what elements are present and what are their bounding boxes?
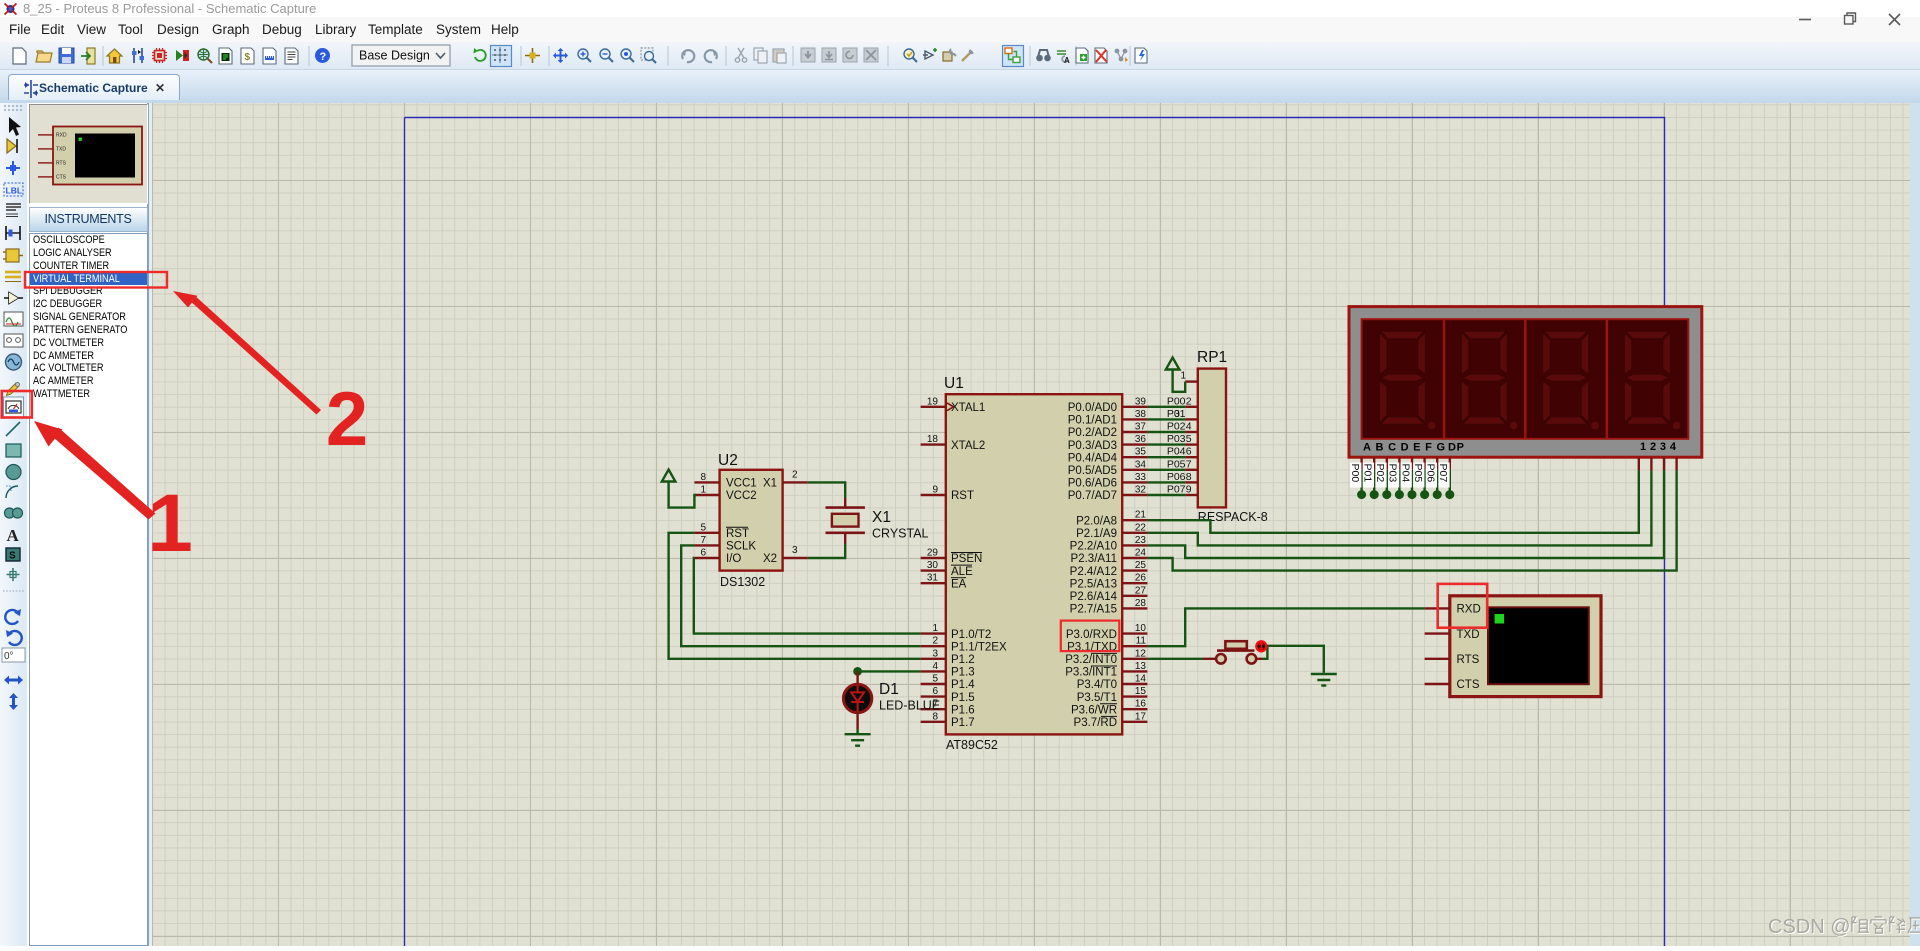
digit 1 segments	[1379, 331, 1436, 430]
ground below LED	[845, 734, 871, 746]
angle box	[2, 648, 25, 662]
svg-text:9: 9	[1186, 484, 1192, 496]
crystal top pin	[844, 498, 846, 508]
svg-text:37: 37	[1135, 422, 1147, 433]
refresh	[474, 48, 486, 61]
import door	[81, 48, 95, 64]
svg-text:P0.1/AD1: P0.1/AD1	[1068, 415, 1117, 427]
svg-text:P04: P04	[1167, 446, 1186, 458]
svg-text:P2.6/A14: P2.6/A14	[1070, 591, 1118, 603]
open folder	[36, 51, 52, 62]
svg-text:RXD: RXD	[1457, 604, 1481, 616]
2D box tool	[6, 444, 21, 457]
svg-text:6: 6	[932, 686, 938, 697]
2D circle tool	[6, 465, 21, 480]
overlines INT0 INT1 WR RD	[1091, 653, 1117, 716]
svg-text:P1.6: P1.6	[951, 704, 975, 716]
svg-text:24: 24	[1135, 548, 1147, 559]
wire U1.22 to display pin2	[1147, 470, 1651, 545]
svg-text:6: 6	[1186, 446, 1192, 458]
svg-text:P06: P06	[1425, 464, 1437, 483]
svg-text:P1.3: P1.3	[951, 667, 975, 679]
chip U1 AT89C52 body	[946, 394, 1122, 734]
LED D1 anode wire	[856, 671, 858, 684]
svg-text:3: 3	[932, 648, 938, 659]
svg-text:P3.3/INT1: P3.3/INT1	[1065, 667, 1117, 679]
svg-text:16: 16	[1135, 699, 1147, 710]
svg-text:P05: P05	[1167, 458, 1186, 470]
svg-text:39: 39	[1135, 396, 1147, 407]
svg-text:2: 2	[326, 377, 368, 462]
svg-text:8: 8	[932, 711, 938, 722]
wire button to ground	[1263, 646, 1324, 673]
terminal mode tool	[4, 293, 23, 304]
pan	[553, 48, 568, 63]
svg-text:11: 11	[1136, 636, 1147, 647]
svg-text:2: 2	[792, 469, 798, 480]
svg-text:26: 26	[1135, 573, 1147, 584]
help	[315, 48, 330, 63]
2D symbol tool	[6, 548, 20, 561]
block move	[822, 48, 836, 62]
svg-text:X1: X1	[872, 509, 891, 526]
RP1 pin numbers 2-9	[1174, 395, 1192, 495]
svg-text:P2.7/A15: P2.7/A15	[1070, 604, 1117, 616]
svg-text:P2.3/A11: P2.3/A11	[1071, 553, 1117, 565]
property tool	[1057, 51, 1070, 65]
zoom all	[641, 48, 656, 63]
svg-text:33: 33	[1135, 472, 1147, 483]
rotate ccw tool	[8, 631, 22, 645]
svg-text:P0.0/AD0: P0.0/AD0	[1068, 402, 1117, 414]
svg-text:10: 10	[1135, 623, 1147, 634]
block copy	[801, 48, 815, 62]
save	[59, 48, 74, 63]
new document	[13, 48, 26, 64]
make device	[923, 48, 937, 59]
wire U1.24 to display pin4	[1147, 470, 1676, 570]
svg-text:4: 4	[1186, 421, 1192, 433]
display select pin stubs	[1639, 457, 1677, 470]
svg-text:ALE: ALE	[951, 566, 973, 578]
divider	[3, 590, 24, 592]
annotation arrow 1	[34, 421, 156, 520]
button right pin	[1256, 658, 1262, 660]
graph mode tool	[4, 312, 23, 326]
2D arc tool	[6, 486, 18, 498]
svg-text:P0.6/AD6: P0.6/AD6	[1068, 478, 1117, 490]
terminal screen	[1488, 607, 1589, 684]
bus wire tool	[5, 272, 21, 277]
U2 pin numbers	[700, 472, 706, 559]
svg-text:1: 1	[1180, 371, 1186, 382]
svg-text:P05: P05	[1412, 464, 1424, 483]
annotation arrow 2	[173, 291, 321, 415]
paste	[773, 48, 786, 63]
wire power to RP1 pin1	[1173, 370, 1186, 392]
rotated net labels P00-P07	[1349, 463, 1450, 488]
window close button	[1889, 14, 1900, 25]
svg-text:I/O: I/O	[726, 553, 741, 565]
sheet border	[405, 118, 1665, 947]
wire U1.P3.2 to button	[1147, 658, 1203, 660]
svg-text:P1.5: P1.5	[951, 692, 975, 704]
svg-text:P2.5/A13: P2.5/A13	[1070, 578, 1117, 590]
grid toggle (selected)	[491, 46, 512, 67]
electrical check	[1135, 48, 1147, 63]
segment wires with terminal dots	[1362, 470, 1450, 493]
bus tool	[6, 226, 20, 240]
svg-text:3: 3	[1174, 408, 1180, 420]
svg-text:18: 18	[927, 434, 939, 445]
svg-text:P2.1/A9: P2.1/A9	[1076, 528, 1117, 540]
red box around terminal RXD	[1438, 584, 1488, 628]
U2 pin names	[726, 478, 777, 566]
overlines PSEN ALE EA	[951, 553, 982, 578]
text script tool	[6, 204, 21, 210]
wire U2.I/O to U1.P1.0	[694, 558, 921, 634]
undo	[681, 50, 694, 62]
zoom out	[600, 49, 613, 62]
preview screen	[75, 133, 135, 177]
terminal pin stubs	[1425, 608, 1450, 684]
svg-text:15: 15	[1135, 686, 1147, 697]
wire U1.TXD to terminal RXD	[1147, 608, 1424, 646]
svg-text:4: 4	[932, 661, 938, 672]
svg-text:P02: P02	[1374, 464, 1386, 483]
wire U2.SCLK to U1.P1.1	[681, 545, 920, 646]
svg-text:P3.5/T1: P3.5/T1	[1077, 692, 1117, 704]
crystal X1	[826, 506, 865, 509]
preview pin leads	[38, 134, 53, 176]
svg-text:XTAL1: XTAL1	[951, 402, 985, 414]
svg-text:6: 6	[700, 548, 706, 559]
rotate cw tool	[5, 610, 19, 624]
app icon	[5, 4, 17, 15]
svg-text:DS1302: DS1302	[720, 575, 765, 589]
terminal cursor	[1495, 614, 1505, 624]
svg-text:3: 3	[792, 545, 798, 556]
svg-text:22: 22	[1135, 522, 1147, 533]
origin marker	[525, 48, 540, 63]
svg-text:34: 34	[1135, 459, 1147, 470]
svg-text:SCLK: SCLK	[726, 541, 756, 553]
zoom region	[621, 49, 634, 62]
svg-text:19: 19	[927, 396, 939, 407]
copy	[754, 48, 767, 63]
power arrow RP1	[1166, 358, 1180, 370]
button left pin	[1203, 658, 1216, 660]
svg-text:P07: P07	[1167, 484, 1186, 496]
svg-text:RST: RST	[951, 490, 974, 502]
remove sheet	[1095, 48, 1107, 63]
LED cathode wire	[856, 713, 858, 729]
globe search	[198, 49, 212, 63]
virtual terminal body	[1450, 596, 1601, 697]
tape recorder tool	[4, 334, 23, 347]
svg-text:P1.2: P1.2	[951, 654, 975, 666]
svg-text:P0.2/AD2: P0.2/AD2	[1068, 427, 1117, 439]
svg-text:P3.6/WR: P3.6/WR	[1071, 704, 1117, 716]
wire crystal bottom to U2.X2	[808, 544, 845, 559]
svg-text:RST: RST	[726, 528, 749, 540]
svg-text:P04: P04	[1399, 464, 1411, 483]
net labels P00..P07	[1167, 395, 1186, 495]
svg-text:P0.3/AD3: P0.3/AD3	[1068, 440, 1117, 452]
doc ruler	[263, 48, 276, 64]
cut	[735, 48, 746, 62]
svg-text:P00: P00	[1167, 395, 1186, 407]
svg-text:U1: U1	[944, 375, 964, 392]
LED D1 body	[843, 684, 871, 712]
doc text	[285, 48, 298, 64]
junction dot tool	[6, 161, 20, 175]
button cap	[1217, 649, 1254, 652]
home	[107, 49, 122, 63]
svg-text:38: 38	[1135, 409, 1147, 420]
packaging tool	[943, 49, 956, 61]
svg-text:P03: P03	[1167, 433, 1186, 445]
svg-text:P0.5/AD5: P0.5/AD5	[1068, 465, 1117, 477]
svg-text:P02: P02	[1167, 421, 1186, 433]
junction node LED	[853, 667, 862, 676]
svg-text:CTS: CTS	[1457, 679, 1480, 691]
svg-text:P0.4/AD4: P0.4/AD4	[1068, 452, 1118, 464]
wire U2.RST to U1.P1.2	[669, 533, 921, 659]
search binoculars	[1036, 50, 1051, 61]
svg-text:13: 13	[1135, 661, 1147, 672]
instruments tool (selected)	[4, 397, 24, 417]
crystal bottom pin	[844, 533, 846, 544]
svg-text:14: 14	[1135, 674, 1147, 685]
svg-text:30: 30	[927, 560, 939, 571]
svg-text:29: 29	[927, 548, 939, 559]
svg-text:P1.7: P1.7	[951, 717, 975, 729]
netlist icon (selected)	[1003, 46, 1024, 67]
svg-text:2: 2	[1186, 395, 1192, 407]
2D marker tool	[7, 568, 20, 581]
digit separators	[1444, 319, 1607, 439]
component pins icon	[132, 48, 144, 63]
U1 left pin stubs	[921, 407, 946, 722]
red chip	[152, 48, 167, 63]
svg-text:P2.4/A12: P2.4/A12	[1070, 566, 1117, 578]
svg-text:P03: P03	[1387, 464, 1399, 483]
voltage probe tool	[7, 383, 20, 396]
svg-text:XTAL2: XTAL2	[951, 440, 985, 452]
svg-text:P1.1/T2EX: P1.1/T2EX	[951, 641, 1007, 653]
wires U1 P0.x to RP1	[1147, 407, 1185, 495]
svg-text:P0.7/AD7: P0.7/AD7	[1068, 490, 1117, 502]
svg-text:9: 9	[932, 485, 938, 496]
svg-text:P2.2/A10: P2.2/A10	[1070, 541, 1117, 553]
svg-text:VCC1: VCC1	[726, 478, 757, 490]
svg-text:LED-BLUE: LED-BLUE	[879, 699, 940, 713]
redo	[705, 50, 718, 62]
preview pin names	[56, 132, 67, 180]
svg-text:RTS: RTS	[1457, 654, 1480, 666]
window maximize button	[1845, 13, 1856, 24]
svg-text:RESPACK-8: RESPACK-8	[1198, 510, 1268, 524]
block delete	[864, 48, 878, 62]
U1 left pin numbers	[927, 396, 939, 722]
svg-text:31: 31	[927, 573, 939, 584]
goto sheet	[1115, 49, 1128, 62]
svg-text:P1.4: P1.4	[951, 679, 975, 691]
window minimize button	[1799, 19, 1811, 21]
wire U2.X1 to crystal top	[808, 482, 845, 498]
svg-text:VCC2: VCC2	[726, 490, 757, 502]
U1 right pin numbers	[1135, 396, 1147, 722]
svg-text:28: 28	[1135, 598, 1147, 609]
play preview	[176, 50, 189, 61]
svg-text:21: 21	[1135, 510, 1147, 521]
svg-text:36: 36	[1135, 434, 1147, 445]
svg-text:7: 7	[700, 535, 706, 546]
svg-text:P3.2/INT0: P3.2/INT0	[1065, 654, 1117, 666]
svg-text:32: 32	[1135, 485, 1147, 496]
chip U2 DS1302 body	[720, 470, 783, 571]
svg-text:X2: X2	[763, 553, 777, 565]
svg-text:12: 12	[1135, 648, 1147, 659]
overline RST U2	[726, 526, 748, 528]
digit 3 segments	[1543, 331, 1600, 430]
U1 left pin names	[951, 402, 1007, 729]
selection arrow tool	[9, 117, 21, 136]
7-segment display 7SEG-MPX4 frame	[1349, 307, 1702, 458]
svg-text:P07: P07	[1437, 464, 1449, 483]
button right contact	[1247, 654, 1257, 664]
display segment pin stubs	[1362, 457, 1450, 470]
svg-text:23: 23	[1135, 535, 1147, 546]
svg-text:5: 5	[1186, 433, 1192, 445]
red box around sidebar instrument icon	[2, 391, 32, 418]
svg-text:PSEN: PSEN	[951, 553, 982, 565]
RP1 pin 1 stub	[1185, 380, 1198, 382]
svg-text:1: 1	[147, 478, 193, 569]
preview cursor	[78, 137, 81, 140]
svg-text:P06: P06	[1167, 471, 1186, 483]
mirror horizontal tool	[4, 676, 23, 685]
display digit area	[1362, 319, 1689, 439]
component mode tool	[7, 139, 16, 153]
generator tool	[6, 354, 22, 370]
svg-text:27: 27	[1135, 585, 1147, 596]
pick device	[904, 49, 917, 62]
wire U1.21 to display pin1	[1147, 470, 1638, 532]
U1 right pin names	[1065, 402, 1117, 729]
svg-text:CRYSTAL: CRYSTAL	[872, 527, 929, 541]
svg-text:8: 8	[700, 472, 706, 483]
wire U1.23 to display pin3	[1147, 470, 1664, 558]
block rotate	[843, 48, 857, 62]
red box around VIRTUAL TERMINAL item	[25, 272, 167, 288]
svg-text:P3.7/RD: P3.7/RD	[1074, 717, 1117, 729]
svg-text:7: 7	[1186, 458, 1192, 470]
svg-text:U2: U2	[718, 452, 738, 469]
terminal pin names	[1457, 604, 1481, 692]
svg-text:5: 5	[932, 674, 938, 685]
button left contact	[1216, 654, 1226, 664]
svg-text:DP: DP	[1448, 442, 1464, 454]
zoom in	[578, 49, 591, 62]
2D line tool	[6, 422, 20, 436]
decompose	[962, 49, 974, 61]
wire power to VCC2	[669, 482, 696, 508]
svg-text:P3.0/RXD: P3.0/RXD	[1066, 629, 1117, 641]
new sheet	[1076, 48, 1088, 63]
svg-text:P00: P00	[1349, 464, 1361, 483]
svg-text:AT89C52: AT89C52	[946, 738, 998, 752]
svg-text:5: 5	[700, 522, 706, 533]
digit 4 segments	[1624, 331, 1681, 430]
svg-text:35: 35	[1135, 447, 1147, 458]
doc dollar	[241, 48, 254, 64]
power arrow near U2	[662, 470, 676, 482]
svg-text:1: 1	[932, 623, 938, 634]
actuation marker	[1256, 641, 1266, 651]
svg-text:17: 17	[1135, 711, 1147, 722]
U1 XTAL1 clock mark	[947, 403, 954, 411]
RP1 left stubs	[1185, 407, 1198, 495]
U1 right pin stubs	[1122, 407, 1147, 722]
ground near button	[1311, 674, 1337, 686]
mirror vertical tool	[9, 693, 18, 710]
U2 pin stubs	[694, 482, 807, 558]
RP1 body	[1198, 369, 1226, 508]
svg-text:8: 8	[1186, 471, 1192, 483]
base design dropdown	[352, 45, 450, 66]
svg-text:TXD: TXD	[1457, 629, 1480, 641]
svg-text:P01: P01	[1362, 464, 1374, 483]
svg-text:P3.4/T0: P3.4/T0	[1077, 679, 1117, 691]
2D path tool	[5, 508, 15, 518]
doc green chip	[219, 48, 232, 64]
subcircuit tool	[6, 249, 19, 262]
red box around P3.0 P3.1	[1061, 621, 1120, 652]
svg-text:1: 1	[700, 485, 706, 496]
wire label tool	[4, 183, 23, 196]
svg-text:P1.0/T2: P1.0/T2	[951, 629, 991, 641]
digit 2 segments	[1461, 331, 1518, 430]
svg-text:P2.0/A8: P2.0/A8	[1076, 515, 1117, 527]
wire P1.3 to LED	[858, 670, 921, 672]
svg-text:RP1: RP1	[1197, 349, 1227, 366]
preview terminal body	[53, 126, 142, 184]
svg-text:EA: EA	[951, 578, 967, 590]
svg-text:25: 25	[1135, 560, 1147, 571]
svg-text:D1: D1	[879, 681, 899, 698]
svg-text:2: 2	[932, 636, 938, 647]
svg-text:X1: X1	[763, 478, 777, 490]
